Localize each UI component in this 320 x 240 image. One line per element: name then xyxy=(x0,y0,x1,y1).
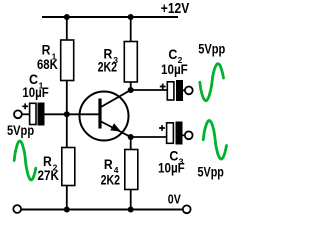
waveform output bottom sine xyxy=(203,121,226,160)
label R4 xyxy=(104,157,119,175)
label R3 xyxy=(104,47,119,66)
svg-text:10µF: 10µF xyxy=(22,85,48,100)
label R1 xyxy=(42,43,57,62)
label C2 xyxy=(168,47,182,65)
resistor R2 xyxy=(62,148,75,186)
wire right branch vertical (R3 collector / R4 emitter) xyxy=(130,17,132,210)
junction emitter node xyxy=(128,134,134,140)
terminal input xyxy=(14,110,22,118)
capacitor C3 xyxy=(131,122,185,145)
junction bottom rail / R4 xyxy=(128,207,134,213)
capacitor C1 xyxy=(22,103,67,126)
junction collector node xyxy=(128,87,134,93)
label C3 xyxy=(169,149,183,167)
label C1 xyxy=(29,72,44,91)
terminal output top xyxy=(185,87,193,95)
transistor Q1 NPN xyxy=(80,90,131,141)
junction top rail / R1 xyxy=(64,14,70,20)
terminal output bottom xyxy=(185,131,193,139)
svg-text:2K2: 2K2 xyxy=(101,173,121,188)
svg-text:10µF: 10µF xyxy=(158,161,185,176)
terminal ground right xyxy=(183,205,191,213)
resistor R1 xyxy=(61,40,74,81)
svg-text:R: R xyxy=(42,43,51,58)
capacitor C2 xyxy=(131,80,185,101)
svg-text:5Vpp: 5Vpp xyxy=(7,123,34,138)
junction bottom rail / R2 xyxy=(64,207,70,213)
terminal ground left xyxy=(13,205,21,213)
wire left branch vertical (R1-R2 divider) xyxy=(66,17,68,210)
junction base node xyxy=(64,111,70,117)
svg-text:2K2: 2K2 xyxy=(98,60,118,75)
wire +12V supply rail xyxy=(42,16,178,18)
svg-text:C: C xyxy=(168,47,177,62)
waveform output top sine (inverted) xyxy=(200,64,224,101)
waveform input sine xyxy=(14,141,36,180)
label R2 xyxy=(43,154,58,173)
svg-text:68K: 68K xyxy=(37,57,58,72)
resistor R4 xyxy=(125,150,138,190)
junction top rail / R3 xyxy=(128,14,134,20)
wire base xyxy=(67,113,100,115)
svg-text:R: R xyxy=(104,157,113,172)
svg-text:R: R xyxy=(43,154,52,169)
svg-text:10µF: 10µF xyxy=(161,62,188,77)
svg-text:+12V: +12V xyxy=(161,1,190,17)
wire 0V ground rail xyxy=(22,209,183,211)
svg-text:5Vpp: 5Vpp xyxy=(198,41,225,56)
resistor R3 xyxy=(124,42,137,83)
svg-text:5Vpp: 5Vpp xyxy=(198,165,224,180)
svg-text:0V: 0V xyxy=(168,192,181,207)
svg-text:27K: 27K xyxy=(38,168,60,183)
